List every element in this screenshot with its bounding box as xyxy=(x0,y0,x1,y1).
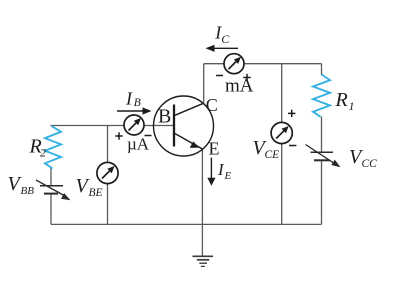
svg-text:BE: BE xyxy=(89,187,103,199)
svg-text:E: E xyxy=(224,170,232,182)
ammeter mA (IC meter) xyxy=(224,54,244,74)
svg-text:1: 1 xyxy=(349,99,355,113)
voltmeter VCE xyxy=(271,122,292,143)
wire collector vertical xyxy=(203,64,205,104)
wire VCE branch vertical xyxy=(281,64,283,225)
current arrow IE xyxy=(210,158,212,180)
svg-text:BB: BB xyxy=(21,185,35,197)
svg-text:I: I xyxy=(125,88,133,108)
ammeter uA (IB meter) xyxy=(124,115,144,135)
svg-text:2: 2 xyxy=(40,146,46,160)
wire right branch below battery VCC xyxy=(321,161,323,224)
svg-text:E: E xyxy=(209,138,220,158)
resistor R1 xyxy=(313,75,330,117)
current arrow IC xyxy=(210,47,238,49)
svg-text:B: B xyxy=(158,106,171,128)
svg-text:B: B xyxy=(134,97,141,109)
wire VBE branch vertical xyxy=(107,126,109,225)
wire right branch between R1 and battery VCC xyxy=(321,117,323,152)
voltmeter VBE xyxy=(97,162,118,183)
wire bottom horizontal xyxy=(51,223,322,225)
svg-text:CC: CC xyxy=(362,158,378,170)
VCE plus sign xyxy=(288,112,295,114)
svg-text:C: C xyxy=(206,95,218,115)
wire top horizontal xyxy=(204,63,322,65)
battery VCC xyxy=(306,145,335,164)
wire left branch vertical below battery VBB xyxy=(50,194,52,224)
wire right branch above R1 xyxy=(321,64,323,75)
svg-text:C: C xyxy=(221,32,230,46)
VCE minus sign xyxy=(289,145,296,147)
svg-text:mA: mA xyxy=(225,76,254,97)
mA meter plus sign xyxy=(243,77,250,79)
wire emitter vertical to ground xyxy=(201,149,203,257)
battery VBB xyxy=(36,180,65,196)
svg-text:CE: CE xyxy=(265,149,280,161)
svg-text:R: R xyxy=(335,89,348,111)
current arrow IB xyxy=(117,110,146,112)
transistor Q1 xyxy=(154,96,214,156)
uA meter plus sign xyxy=(115,135,122,137)
mA meter minus sign xyxy=(216,75,223,77)
resistor R2 xyxy=(45,126,61,169)
svg-text:µA: µA xyxy=(127,135,150,154)
uA meter minus sign xyxy=(145,135,152,137)
wire base lead horizontal xyxy=(51,125,175,127)
wire left branch vertical below resistor xyxy=(50,168,52,186)
ground xyxy=(193,256,214,266)
